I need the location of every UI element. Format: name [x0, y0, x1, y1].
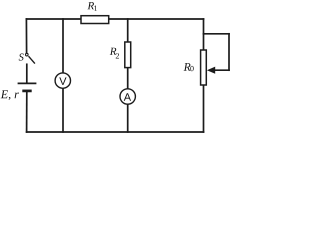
label R0 — [184, 63, 191, 71]
ammeter letter A — [124, 93, 131, 101]
wire left side: top corner to switch — [25, 19, 27, 53]
wire R2 to ammeter — [127, 67, 129, 88]
battery short plate — [22, 90, 31, 93]
label R1 — [87, 2, 94, 9]
resistor R2 — [125, 42, 131, 68]
switch S pivot circle — [26, 53, 29, 56]
switch S blade — [29, 56, 35, 63]
voltmeter circle — [55, 73, 70, 88]
label S — [19, 54, 24, 61]
wire rheostat feed vertical — [228, 34, 230, 70]
battery long plate — [18, 82, 37, 84]
ammeter circle — [120, 89, 135, 104]
wire rheostat wiper horizontal — [214, 69, 230, 71]
wire left side: below switch to battery — [26, 64, 28, 82]
wire left side: below battery to bottom corner — [26, 92, 28, 132]
voltmeter letter V — [59, 77, 66, 85]
wire rheostat feed horizontal — [204, 33, 230, 35]
rheostat R0 box — [201, 50, 207, 85]
resistor R1 — [81, 16, 109, 24]
wire right side: below R0 to bottom corner — [203, 85, 205, 132]
wire top bus — [26, 18, 203, 20]
wire voltmeter branch lower — [62, 89, 64, 132]
wire voltmeter branch upper — [62, 19, 64, 72]
wiper arrowhead — [207, 67, 215, 74]
wire bottom bus — [27, 131, 204, 133]
wire R2 branch upper — [127, 19, 129, 42]
label E, r — [1, 90, 19, 100]
wire right side: top corner to R0 — [203, 19, 205, 50]
wire ammeter to bottom bus — [127, 105, 129, 132]
label R2 — [110, 48, 117, 55]
